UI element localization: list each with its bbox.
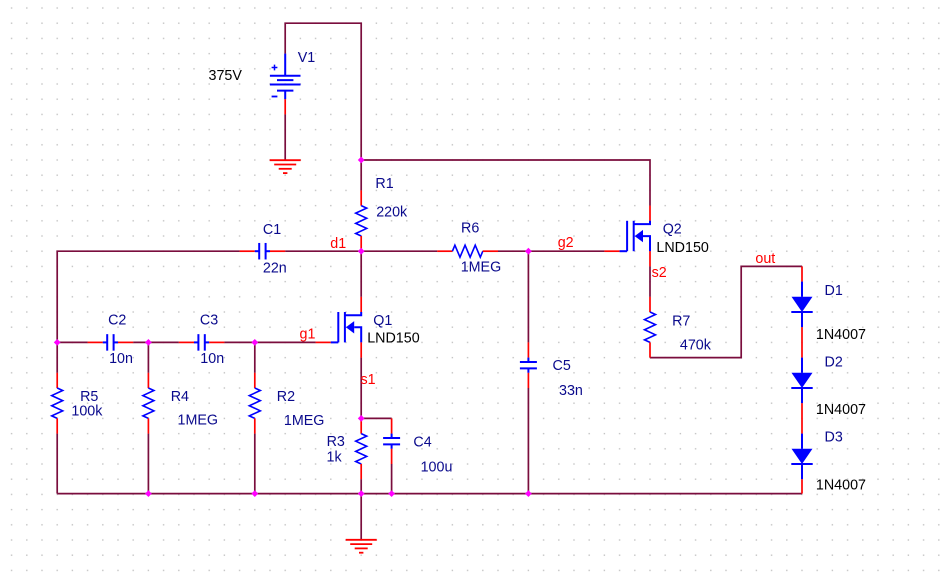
svg-text:R6: R6 xyxy=(461,221,479,237)
capacitor C1 xyxy=(240,243,286,260)
wire R6 right to junction xyxy=(498,250,528,252)
svg-text:33n: 33n xyxy=(559,383,583,399)
svg-text:V1: V1 xyxy=(298,50,316,66)
wire C5 top xyxy=(527,251,529,342)
svg-text:10n: 10n xyxy=(200,351,224,367)
wire between D2 and D3 xyxy=(801,403,803,433)
resistor R6 xyxy=(437,245,498,257)
svg-text:100k: 100k xyxy=(71,403,103,419)
capacitor C3 xyxy=(179,334,225,351)
wire D3 to bottom rail xyxy=(801,479,803,493)
junction C3/R2/g1 xyxy=(251,339,258,346)
capacitor C4 xyxy=(383,418,400,464)
wire C4 bottom to rail xyxy=(391,464,393,494)
svg-text:1N4007: 1N4007 xyxy=(816,327,866,343)
wire C2 to C3 xyxy=(133,341,179,343)
svg-text:R3: R3 xyxy=(327,434,345,450)
junction left rail C2 xyxy=(54,339,61,346)
ground for V1 xyxy=(270,160,301,173)
resistor R5 xyxy=(52,373,63,434)
wire d1 row left segment and left rail xyxy=(57,251,239,342)
junction R6/C5/g2 xyxy=(525,248,532,255)
junction C2/C3/R4 xyxy=(145,339,152,346)
svg-text:s1: s1 xyxy=(361,372,376,388)
wire battery top to main vertical xyxy=(285,23,361,160)
wire top rail to Q2 drain xyxy=(361,160,650,206)
wire between D1 and D2 xyxy=(801,327,803,357)
wire C3 to R2 node xyxy=(224,341,254,343)
svg-text:Q1: Q1 xyxy=(373,313,392,329)
wire ground stem xyxy=(360,494,362,540)
wire R3 bottom to rail xyxy=(360,479,362,493)
resistor R7 xyxy=(645,297,656,358)
svg-text:1MEG: 1MEG xyxy=(461,260,502,276)
svg-text:C3: C3 xyxy=(200,313,218,329)
svg-text:R1: R1 xyxy=(375,176,393,192)
wire C5 bottom xyxy=(527,388,529,494)
svg-text:LND150: LND150 xyxy=(367,331,420,347)
svg-text:470k: 470k xyxy=(680,338,712,354)
mosfet Q2 xyxy=(604,206,650,267)
wire R2 bottom to rail xyxy=(254,434,256,494)
svg-text:D2: D2 xyxy=(825,355,843,371)
wire node 160 to R1 top xyxy=(360,160,362,190)
capacitor C2 xyxy=(88,334,134,351)
svg-text:C5: C5 xyxy=(553,358,571,374)
svg-text:R7: R7 xyxy=(672,313,690,329)
svg-text:C4: C4 xyxy=(413,435,431,451)
wire R4 bottom to rail xyxy=(147,434,149,494)
svg-text:R5: R5 xyxy=(80,389,98,405)
node d1 junction xyxy=(358,248,365,255)
svg-text:Q2: Q2 xyxy=(663,222,682,238)
svg-text:1k: 1k xyxy=(327,450,343,466)
wire Q2 source to R7 xyxy=(649,266,651,296)
wire bottom rail xyxy=(57,493,802,495)
wire g1 from R2 node to Q1 gate xyxy=(255,341,316,343)
svg-text:g2: g2 xyxy=(558,235,574,251)
svg-text:D1: D1 xyxy=(825,283,843,299)
ground at bottom xyxy=(346,540,377,553)
node s1 junction xyxy=(358,415,365,422)
capacitor C5 xyxy=(520,342,537,388)
wire left rail to C2 xyxy=(57,341,87,343)
wire s1 to C4 top xyxy=(361,417,391,419)
svg-text:10n: 10n xyxy=(109,351,133,367)
svg-text:100u: 100u xyxy=(421,459,453,475)
svg-text:1MEG: 1MEG xyxy=(284,413,325,429)
junction R4 bottom xyxy=(145,490,152,497)
wire R4 top xyxy=(147,342,149,372)
svg-text:1N4007: 1N4007 xyxy=(816,478,866,494)
wire junction to Q2 gate xyxy=(528,250,604,252)
wire Q1 drain from d1 xyxy=(360,251,362,297)
svg-text:R2: R2 xyxy=(277,389,295,405)
diode D2 xyxy=(791,358,812,404)
resistor R4 xyxy=(143,373,154,434)
junction at R1 top xyxy=(358,157,365,164)
svg-text:375V: 375V xyxy=(209,68,243,84)
svg-text:C2: C2 xyxy=(108,313,126,329)
junction R2 bottom xyxy=(251,490,258,497)
resistor R2 xyxy=(249,373,260,434)
wire battery negative to ground xyxy=(284,114,286,160)
svg-text:g1: g1 xyxy=(300,326,316,342)
svg-text:d1: d1 xyxy=(330,236,346,252)
svg-text:C1: C1 xyxy=(263,222,281,238)
junction C4 bottom xyxy=(388,490,395,497)
svg-text:1MEG: 1MEG xyxy=(178,413,219,429)
wire d1 to R6 left xyxy=(361,250,437,252)
wire R2 top xyxy=(254,342,256,372)
svg-text:22n: 22n xyxy=(263,260,287,276)
battery V1 xyxy=(270,54,301,115)
wire C1 right to d1 xyxy=(285,250,361,252)
mosfet Q1 xyxy=(316,297,362,358)
svg-text:R4: R4 xyxy=(171,389,189,405)
wire R5 top xyxy=(56,342,58,372)
wire R5 bottom to rail xyxy=(56,434,58,494)
diode D3 xyxy=(791,434,812,480)
junction C5 bottom xyxy=(525,490,532,497)
resistor R3 xyxy=(356,418,367,479)
wire R7 bottom to out node xyxy=(650,266,802,357)
svg-text:LND150: LND150 xyxy=(656,240,709,256)
svg-text:out: out xyxy=(755,251,775,267)
svg-text:220k: 220k xyxy=(376,205,408,221)
svg-text:s2: s2 xyxy=(652,265,667,281)
resistor R1 xyxy=(356,190,367,251)
svg-text:D3: D3 xyxy=(825,430,843,446)
svg-text:1N4007: 1N4007 xyxy=(816,402,866,418)
diode D1 xyxy=(791,266,812,327)
wire Q1 source to s1 xyxy=(360,358,362,419)
junction R3/ground xyxy=(358,490,365,497)
